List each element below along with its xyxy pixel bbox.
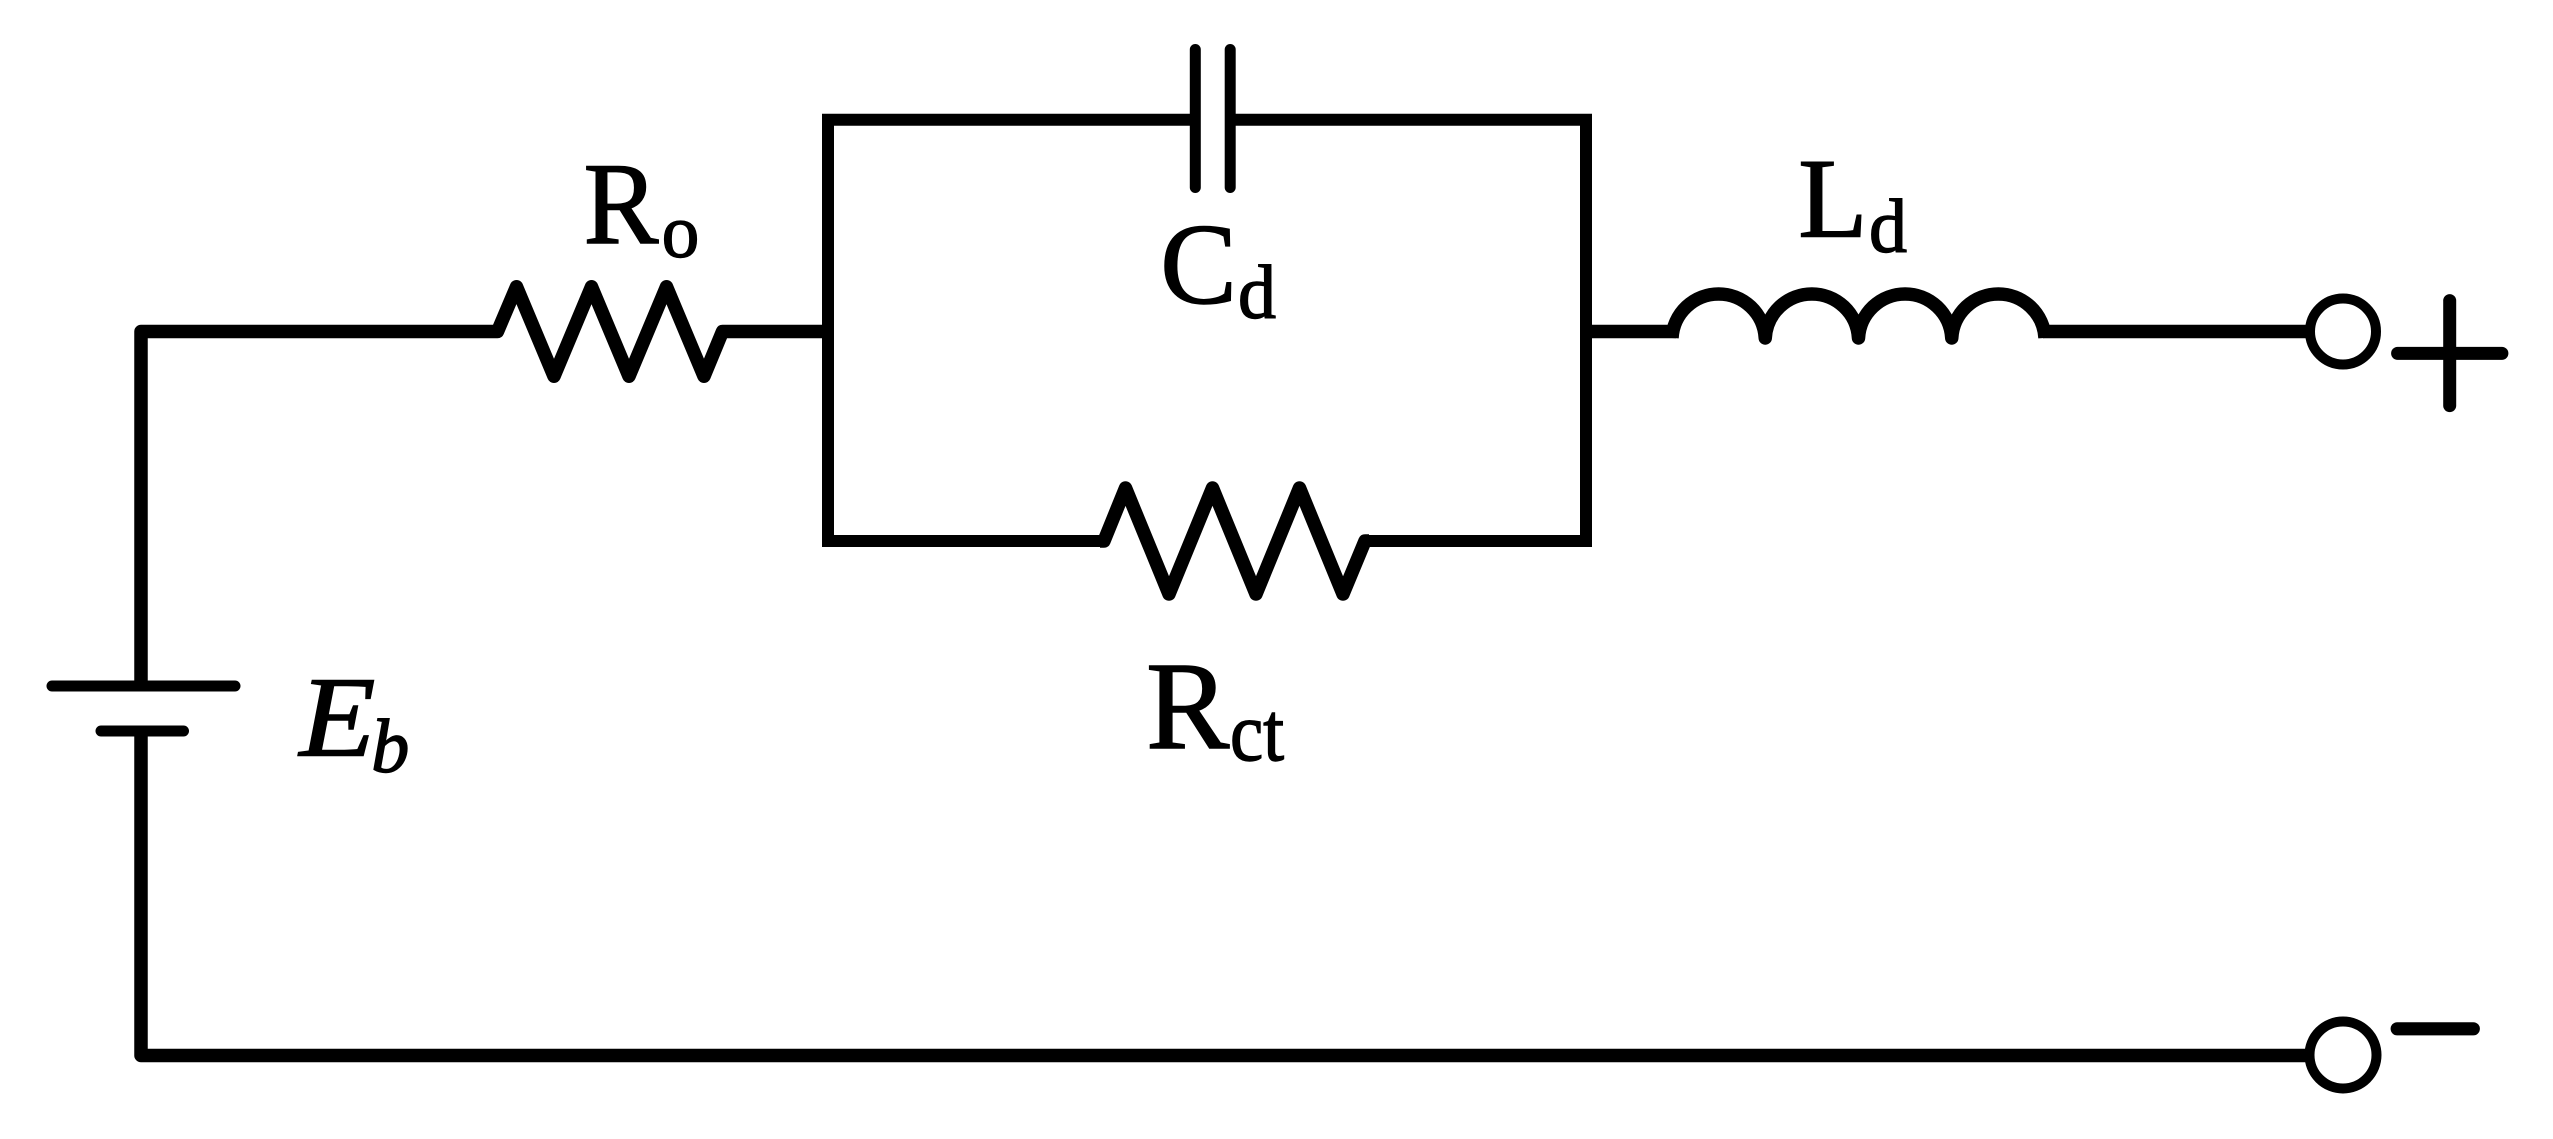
svg-text:E: E — [297, 654, 375, 781]
svg-text:d: d — [1238, 251, 1276, 335]
svg-text:ct: ct — [1230, 687, 1284, 779]
svg-text:R: R — [1146, 638, 1230, 776]
svg-text:L: L — [1798, 136, 1867, 262]
svg-text:o: o — [662, 191, 700, 274]
svg-text:R: R — [584, 140, 659, 269]
svg-text:b: b — [371, 705, 409, 789]
svg-text:d: d — [1869, 185, 1907, 269]
svg-text:C: C — [1160, 201, 1237, 328]
